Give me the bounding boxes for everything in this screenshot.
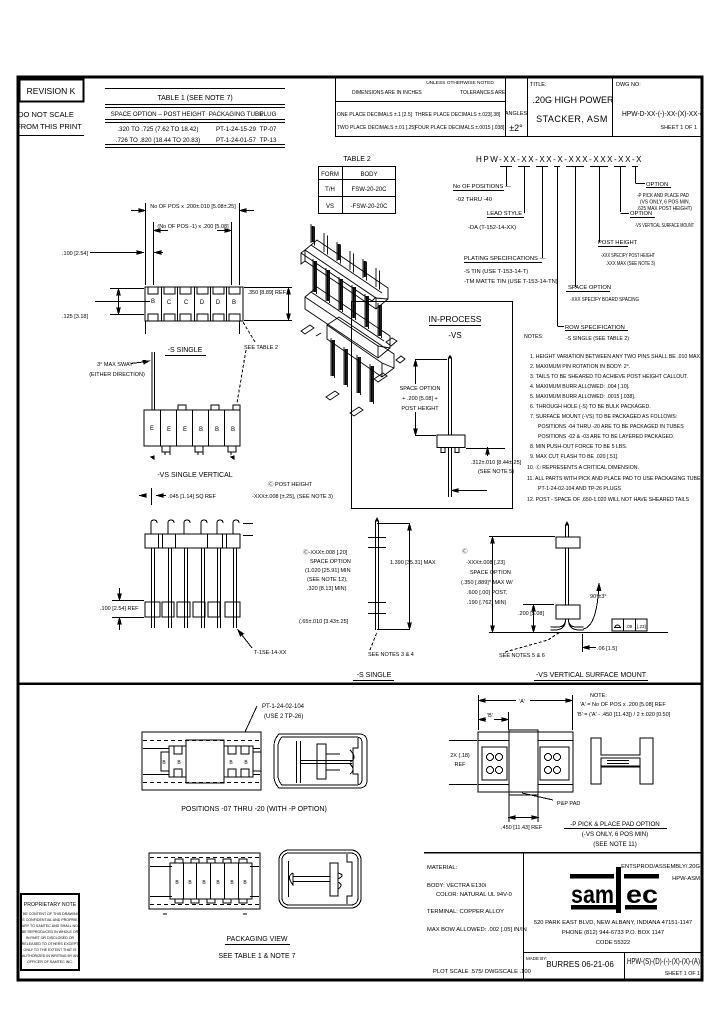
svg-text:(.65±.010 [3.43±.25]: (.65±.010 [3.43±.25] [299, 619, 349, 625]
svg-text:12. POST - SPACE OF .650-1.020: 12. POST - SPACE OF .650-1.020 WILL NOT … [527, 497, 690, 503]
svg-text:PACKAGING TUBE: PACKAGING TUBE [209, 111, 263, 118]
svg-text:.320 [8.13] MIN): .320 [8.13] MIN) [307, 586, 347, 592]
svg-text:(VS ONLY, 6 POS MIN,: (VS ONLY, 6 POS MIN, [640, 200, 690, 206]
svg-text:.625 MAX POST HEIGHT): .625 MAX POST HEIGHT) [637, 206, 692, 212]
svg-text:T-1SE-14-XX: T-1SE-14-XX [254, 650, 287, 656]
svg-text:B: B [188, 880, 192, 886]
svg-text:T/H: T/H [325, 187, 335, 193]
svg-text:-S SINGLE: -S SINGLE [357, 672, 392, 679]
svg-text:SPACE OPTION: SPACE OPTION [470, 570, 511, 576]
svg-text:BODY: BODY [360, 172, 377, 178]
svg-text:.125 [3.18]: .125 [3.18] [62, 314, 88, 320]
svg-text:D: D [216, 300, 221, 306]
svg-text:-S SINGLE (SEE TABLE 2): -S SINGLE (SEE TABLE 2) [566, 336, 629, 342]
svg-text:COLOR: NATURAL UL 94V-0: COLOR: NATURAL UL 94V-0 [436, 892, 512, 898]
svg-text:SPACE OPTION – POST HEIGHT: SPACE OPTION – POST HEIGHT [111, 111, 206, 118]
svg-text:TABLE 2: TABLE 2 [343, 156, 371, 163]
svg-text:(SEE NOTE 12),: (SEE NOTE 12), [307, 577, 348, 583]
svg-text:'A' = No OF POS x .200 [5.08]: 'A' = No OF POS x .200 [5.08] REF [580, 702, 666, 708]
svg-text:PT-1-24-02-104: PT-1-24-02-104 [262, 704, 305, 710]
svg-text:(USE 2 TP-26): (USE 2 TP-26) [264, 714, 303, 720]
svg-text:ONE PLACE DECIMALS ±.1 [2.5]: ONE PLACE DECIMALS ±.1 [2.5] [337, 112, 413, 118]
svg-text:8. MIN PUSH-OUT FORCE TO BE 5: 8. MIN PUSH-OUT FORCE TO BE 5 LBS. [530, 444, 627, 450]
svg-text:C: C [167, 300, 172, 306]
svg-text:HPW-(S)-(D)-(-)-(X)-(X)-(A): HPW-(S)-(D)-(-)-(X)-(X)-(A) [627, 957, 700, 966]
svg-text:2. MAXIMUM PIN ROTATION IN BOD: 2. MAXIMUM PIN ROTATION IN BODY: 2°. [530, 364, 630, 370]
svg-text:No OF POS x .200±.010 [5.08±.2: No OF POS x .200±.010 [5.08±.25] [150, 204, 236, 210]
svg-text:3. TAILS TO BE SHEARED TO ACHI: 3. TAILS TO BE SHEARED TO ACHIEVE POST H… [530, 374, 688, 380]
svg-text:(SEE NOTE 11): (SEE NOTE 11) [593, 841, 637, 848]
svg-text:SEE TABLE 2: SEE TABLE 2 [244, 345, 278, 351]
svg-text:E: E [150, 426, 154, 432]
svg-text:4. MAXIMUM BURR ALLOWED: .004: 4. MAXIMUM BURR ALLOWED: .004 [.10]. [530, 384, 629, 390]
svg-text:IS CONFIDENTIAL AND PROPRIE-: IS CONFIDENTIAL AND PROPRIE- [21, 918, 79, 922]
svg-text:TP-07: TP-07 [260, 126, 277, 133]
svg-text:Ⓒ: Ⓒ [462, 547, 468, 555]
svg-text:10. Ⓒ REPRESENTS A CRITICAL DI: 10. Ⓒ REPRESENTS A CRITICAL DIMENSION. [527, 463, 639, 471]
svg-text:Ⓒ POST HEIGHT: Ⓒ POST HEIGHT [268, 480, 313, 488]
svg-text:POSITIONS -02 & -03 ARE TO BE: POSITIONS -02 & -03 ARE TO BE LAYERED PA… [538, 434, 674, 440]
svg-text:-VS SINGLE VERTICAL: -VS SINGLE VERTICAL [157, 472, 232, 479]
svg-text:E: E [167, 427, 171, 433]
svg-text:.320 TO .725 (7.62 TO 18.42): .320 TO .725 (7.62 TO 18.42) [117, 126, 198, 133]
svg-text:SEE NOTES 3 & 4: SEE NOTES 3 & 4 [368, 652, 414, 658]
svg-text:-XXX SPECIFY POST HEIGHT: -XXX SPECIFY POST HEIGHT [601, 253, 655, 259]
svg-text:P&P PAD: P&P PAD [557, 801, 580, 807]
svg-text:.312±.010 [8.44±.25]: .312±.010 [8.44±.25] [471, 460, 522, 466]
svg-text:B: B [175, 880, 179, 886]
svg-text:HPW-D-XX-(-)-XX-(X)-XX-(: HPW-D-XX-(-)-XX-(X)-XX-( [622, 109, 702, 118]
svg-text:7. SURFACE MOUNT (-VS) TO BE P: 7. SURFACE MOUNT (-VS) TO BE PACKAGED AS… [530, 414, 677, 420]
svg-text:STACKER, ASM: STACKER, ASM [536, 114, 608, 124]
svg-text:.XXX MAX (SEE NOTE 3): .XXX MAX (SEE NOTE 3) [606, 261, 655, 267]
svg-text:(No OF POS -1) x .200 [5.08]: (No OF POS -1) x .200 [5.08] [157, 224, 229, 230]
svg-text:TITLE:: TITLE: [530, 82, 547, 88]
svg-text:THREE PLACE DECIMALS ±.023[.38: THREE PLACE DECIMALS ±.023[.38] [415, 112, 501, 118]
svg-text:PLOT SCALE .575/ DWGSCALE .100: PLOT SCALE .575/ DWGSCALE .100 [433, 969, 531, 975]
svg-text:TERMINAL: COPPER ALLOY: TERMINAL: COPPER ALLOY [427, 909, 504, 915]
svg-text:B: B [231, 427, 235, 433]
svg-text:.045 [1.14] SQ REF: .045 [1.14] SQ REF [168, 494, 217, 500]
svg-text:SEE NOTES 5 & 6: SEE NOTES 5 & 6 [499, 653, 545, 659]
svg-text:VS: VS [326, 204, 334, 210]
svg-text:PACKAGING VIEW: PACKAGING VIEW [227, 936, 288, 943]
svg-text:.450 [11.43] REF: .450 [11.43] REF [501, 825, 543, 831]
svg-text:TWO PLACE DECIMALS ±.01 [.25]: TWO PLACE DECIMALS ±.01 [.25] [337, 125, 416, 131]
svg-text:(1.020 [25.91] MIN: (1.020 [25.91] MIN [305, 568, 351, 574]
svg-text:POST HEIGHT: POST HEIGHT [401, 406, 439, 412]
svg-text:(-VS ONLY, 6 POS MIN): (-VS ONLY, 6 POS MIN) [582, 831, 648, 838]
svg-text:.09: .09 [626, 624, 633, 629]
svg-text:-P PICK & PLACE PAD OPTION: -P PICK & PLACE PAD OPTION [570, 821, 660, 828]
svg-text:PT-1-24-15-29: PT-1-24-15-29 [216, 126, 256, 133]
svg-text:sam: sam [571, 881, 614, 909]
svg-text:TOLERANCES ARE: TOLERANCES ARE [460, 90, 506, 96]
svg-text:1.390 [35.31] MAX: 1.390 [35.31] MAX [390, 560, 436, 566]
svg-text:RELEASED TO OTHERS EXCEPT: RELEASED TO OTHERS EXCEPT [22, 942, 79, 946]
svg-text:BODY: VECTRA E130i: BODY: VECTRA E130i [427, 883, 486, 889]
svg-text:9. MAX CUT FLASH TO BE .020 [.: 9. MAX CUT FLASH TO BE .020 [.51]. [530, 454, 619, 460]
svg-text:B: B [177, 760, 181, 766]
svg-text:.726 TO .820 (18.44 TO 20.83): .726 TO .820 (18.44 TO 20.83) [116, 137, 201, 144]
svg-text:.06 [1.5]: .06 [1.5] [597, 646, 617, 652]
svg-text:2X (.18): 2X (.18) [450, 753, 470, 759]
svg-text:CODE 55322: CODE 55322 [596, 940, 630, 946]
svg-text:'B': 'B' [487, 713, 493, 719]
svg-text:ANGLES: ANGLES [505, 111, 528, 117]
svg-text:Ⓒ-XXX±.008 [.20]: Ⓒ-XXX±.008 [.20] [303, 548, 348, 556]
svg-text:No OF POSITIONS —: No OF POSITIONS — [453, 184, 511, 190]
svg-text:ENTSPROD/ASSEMBLY/.20G: ENTSPROD/ASSEMBLY/.20G [621, 864, 700, 870]
svg-text:SHEET 1 OF 1: SHEET 1 OF 1 [665, 971, 700, 977]
svg-text:NOTE:: NOTE: [590, 693, 607, 699]
svg-text:PT-1-24-01-57: PT-1-24-01-57 [216, 137, 256, 144]
svg-text:PHONE (812) 944-6733 P.O. BO: PHONE (812) 944-6733 P.O. BOX 1147 [562, 930, 664, 936]
svg-text:OFFICER OF SAMTEC INC.: OFFICER OF SAMTEC INC. [27, 960, 73, 964]
svg-text:NOTES:: NOTES: [524, 334, 543, 340]
svg-text:B: B [199, 427, 203, 433]
svg-text:FROM THIS PRINT: FROM THIS PRINT [16, 122, 82, 131]
svg-text:MADE BY:: MADE BY: [526, 956, 547, 961]
svg-text:SPACE OPTION: SPACE OPTION [310, 559, 351, 565]
svg-text:-VS VERTICAL SURFACE MOUNT: -VS VERTICAL SURFACE MOUNT [635, 223, 694, 229]
svg-text:B: B [230, 880, 234, 886]
svg-text:TARY TO SAMTEC AND SHALL NOT: TARY TO SAMTEC AND SHALL NOT [20, 924, 81, 928]
svg-text:IN PART OR DISCLOSED OR: IN PART OR DISCLOSED OR [26, 936, 75, 940]
svg-text:FORM: FORM [321, 172, 339, 178]
svg-text:-VS VERTICAL SURFACE MOUNT: -VS VERTICAL SURFACE MOUNT [536, 672, 647, 679]
svg-text:MATERIAL:: MATERIAL: [427, 865, 458, 871]
svg-text:B: B [202, 880, 206, 886]
svg-text:(.350 [.889]* MAX W/: (.350 [.889]* MAX W/ [461, 580, 513, 586]
svg-text:-S SINGLE: -S SINGLE [168, 347, 203, 354]
svg-text:±2°: ±2° [509, 123, 523, 133]
svg-text:POST HEIGHT: POST HEIGHT [598, 240, 638, 246]
svg-text:(EITHER DIRECTION): (EITHER DIRECTION) [89, 372, 145, 378]
svg-text:-XXX±.008 [.23]: -XXX±.008 [.23] [466, 560, 505, 566]
svg-text:OPTION: OPTION [646, 182, 668, 188]
svg-text:E: E [183, 427, 187, 433]
svg-text:BURRES 06-21-06: BURRES 06-21-06 [546, 960, 614, 969]
svg-text:B: B [232, 300, 236, 306]
svg-text:D: D [200, 300, 205, 306]
svg-text:IN-PROCESS: IN-PROCESS [429, 314, 482, 324]
svg-text:.190 [.762] MIN): .190 [.762] MIN) [467, 600, 507, 606]
svg-text:520 PARK EAST BLVD, NEW ALBANY: 520 PARK EAST BLVD, NEW ALBANY, INDIANA … [534, 920, 692, 926]
svg-text:LEAD STYLE: LEAD STYLE [487, 211, 522, 217]
svg-text:B: B [244, 760, 248, 766]
svg-text:-XXX±.008 [±.25], (SEE NOTE 3): -XXX±.008 [±.25], (SEE NOTE 3) [252, 494, 333, 500]
svg-text:-02 THRU -40: -02 THRU -40 [456, 197, 492, 203]
svg-text:.100 [2.54] REF: .100 [2.54] REF [100, 606, 139, 612]
svg-text:-FSW-20-20C: -FSW-20-20C [351, 204, 389, 210]
svg-text:TP-13: TP-13 [260, 137, 277, 144]
svg-text:SPACE OPTION: SPACE OPTION [568, 285, 611, 291]
svg-text:.20G HIGH POWER: .20G HIGH POWER [532, 95, 614, 105]
svg-text:AUTHORIZED IN WRITING BY AN: AUTHORIZED IN WRITING BY AN [22, 954, 78, 958]
svg-text:B: B [243, 880, 247, 886]
svg-text:.100 [2.54]: .100 [2.54] [62, 251, 88, 257]
svg-text:3° MAX SWAY: 3° MAX SWAY [97, 362, 133, 368]
svg-text:SHEET 1 OF 1: SHEET 1 OF 1 [660, 125, 697, 131]
svg-text:POSITIONS -04 THRU -20 ARE TO: POSITIONS -04 THRU -20 ARE TO BE PACKAGE… [538, 424, 684, 430]
svg-text:DIMENSIONS ARE IN INCHES: DIMENSIONS ARE IN INCHES [352, 90, 422, 96]
svg-text:SPACE OPTION: SPACE OPTION [400, 386, 441, 392]
svg-text:DO NOT SCALE: DO NOT SCALE [18, 110, 74, 119]
svg-text:-XXX SPECIFY BOARD SPACING: -XXX SPECIFY BOARD SPACING [570, 297, 639, 303]
svg-text:-DA (T-152-14-XX): -DA (T-152-14-XX) [468, 225, 516, 231]
svg-text:.350 [8.89] REF: .350 [8.89] REF [247, 290, 286, 296]
svg-text:POSITIONS -07 THRU -20 (WITH -: POSITIONS -07 THRU -20 (WITH -P OPTION) [181, 806, 327, 813]
svg-text:HPW-XX-XX-XX-X-XXX-XXX-XX-X: HPW-XX-XX-XX-X-XXX-XXX-XX-X [476, 155, 643, 164]
svg-text:TABLE 1 (SEE NOTE 7): TABLE 1 (SEE NOTE 7) [157, 95, 232, 102]
svg-text:-TM MATTE TIN (USE T-153-14-TN: -TM MATTE TIN (USE T-153-14-TN) [464, 279, 558, 285]
svg-text:PLATING SPECIFICATIONS —: PLATING SPECIFICATIONS — [464, 256, 545, 262]
svg-text:-VS: -VS [448, 331, 461, 340]
svg-text:FOUR PLACE DECIMALS ±.0015 [.0: FOUR PLACE DECIMALS ±.0015 [.038] [415, 125, 505, 131]
svg-text:REF: REF [455, 762, 467, 768]
svg-text:PT-1-24-02-104 AND TP-26 PLUGS: PT-1-24-02-104 AND TP-26 PLUGS [538, 486, 621, 492]
svg-text:-S TIN (USE T-153-14-T): -S TIN (USE T-153-14-T) [464, 269, 528, 275]
svg-text:DWG NO:: DWG NO: [616, 82, 641, 88]
svg-text:B: B [162, 760, 166, 766]
svg-text:PLUG: PLUG [260, 111, 277, 118]
svg-text:ROW SPECIFICATION: ROW SPECIFICATION [565, 325, 625, 331]
svg-text:'A': 'A' [519, 699, 525, 705]
svg-text:11. ALL PARTS WITH PICK AND PL: 11. ALL PARTS WITH PICK AND PLACE PAD TO… [527, 476, 701, 482]
svg-text:(SEE NOTE 5): (SEE NOTE 5) [478, 469, 514, 475]
svg-text:ec: ec [626, 881, 658, 909]
svg-text:.600 [.00] POST,: .600 [.00] POST, [467, 590, 508, 596]
svg-text:B: B [151, 299, 155, 305]
svg-text:MAX BOW ALLOWED: .002 [.05] I: MAX BOW ALLOWED: .002 [.05] IN/IN [427, 927, 527, 933]
svg-text:B: B [216, 880, 220, 886]
svg-text:1. HEIGHT VARIATION BETWEEN AN: 1. HEIGHT VARIATION BETWEEN ANY TWO PINS… [530, 354, 701, 360]
svg-text:B: B [215, 427, 219, 433]
svg-text:.200 [5.08]: .200 [5.08] [518, 611, 544, 617]
svg-text:PROPRIETARY NOTE: PROPRIETARY NOTE [24, 902, 77, 908]
svg-text:[.23]: [.23] [637, 624, 646, 629]
svg-text:-P PICK AND PLACE PAD: -P PICK AND PLACE PAD [637, 193, 689, 199]
svg-text:90°±3°: 90°±3° [590, 594, 607, 600]
svg-text:'B' = ('A' - .450 [11.43]) / 2: 'B' = ('A' - .450 [11.43]) / 2 ±.020 [0.… [577, 712, 671, 718]
svg-text:B: B [229, 760, 233, 766]
svg-text:6. THROUGH HOLE (-S) TO BE BUL: 6. THROUGH HOLE (-S) TO BE BULK PACKAGED… [530, 404, 651, 410]
svg-text:BE REPRODUCED IN WHOLE OR: BE REPRODUCED IN WHOLE OR [22, 930, 79, 934]
svg-text:ONLY TO THE EXTENT THAT IS: ONLY TO THE EXTENT THAT IS [24, 948, 78, 952]
svg-text:+ .200 [5.08] +: + .200 [5.08] + [402, 396, 437, 402]
svg-text:5. MAXIMUM BURR ALLOWED: .0015: 5. MAXIMUM BURR ALLOWED: .0015 [.038]. [530, 394, 635, 400]
svg-text:SEE TABLE 1 & NOTE 7: SEE TABLE 1 & NOTE 7 [218, 953, 295, 960]
svg-text:REVISION K: REVISION K [27, 86, 76, 96]
svg-text:THE CONTENT OF THIS DRAWING: THE CONTENT OF THIS DRAWING [21, 912, 80, 916]
svg-text:FSW-20-20C: FSW-20-20C [352, 187, 388, 193]
svg-text:HPW-ASM: HPW-ASM [672, 876, 700, 882]
svg-text:UNLESS OTHERWISE NOTED: UNLESS OTHERWISE NOTED [426, 80, 494, 86]
svg-text:C: C [184, 300, 189, 306]
